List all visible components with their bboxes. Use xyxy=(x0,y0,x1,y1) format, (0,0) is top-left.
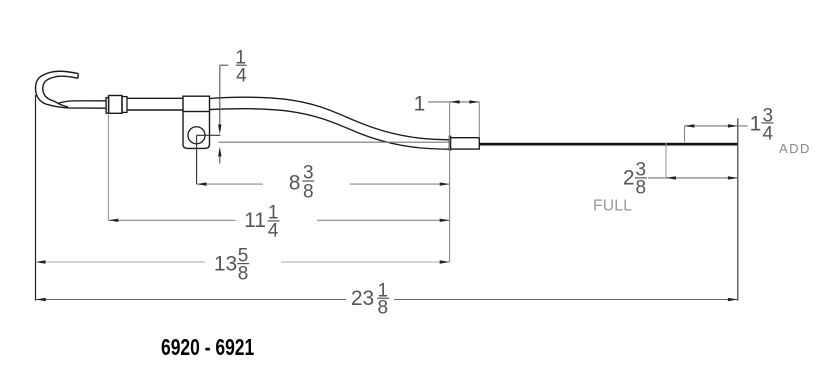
dim 2 3/8 extension line xyxy=(665,142,667,178)
dim 8 3/8 line left xyxy=(197,183,263,185)
tube end crimp bar xyxy=(449,136,452,151)
ferrule main body xyxy=(109,96,122,114)
ferrule second ring xyxy=(122,97,127,113)
tube S-curve lower line xyxy=(210,109,450,149)
svg-text:8: 8 xyxy=(636,177,647,198)
ferrule extension line xyxy=(107,114,109,221)
rod with tapered tip xyxy=(58,101,107,107)
blade thick line xyxy=(480,143,739,146)
dim 13 5/8 line left xyxy=(36,261,205,263)
hook extension line xyxy=(35,95,37,301)
tube straight section xyxy=(127,98,183,110)
dim 1/4 leader xyxy=(220,65,229,126)
dim 1 3/4 extension line left xyxy=(684,126,686,142)
dim 23 1/8 line left xyxy=(36,299,346,301)
tube end box xyxy=(451,138,479,149)
dim 23 1/8 line right with arrow xyxy=(394,299,738,301)
dim 8 3/8 text xyxy=(289,163,315,203)
svg-text:1: 1 xyxy=(414,92,426,115)
dim 13 5/8 left arrow xyxy=(36,260,46,263)
dim 13 5/8 text xyxy=(214,246,249,285)
svg-text:4: 4 xyxy=(236,66,247,87)
svg-text:8: 8 xyxy=(238,263,249,284)
dim 1 line and arrows xyxy=(450,101,480,103)
dim 1/4 up arrow with tail xyxy=(218,147,221,157)
svg-text:6920 - 6921: 6920 - 6921 xyxy=(161,336,254,361)
dim 13 5/8 line right with arrow xyxy=(281,261,450,263)
bracket tab with rounded bottom xyxy=(183,112,210,149)
svg-text:2: 2 xyxy=(623,166,635,189)
dim 1 3/4 text xyxy=(750,105,774,144)
dim 1 extension lines xyxy=(449,102,451,262)
svg-text:1: 1 xyxy=(750,112,762,135)
dim 2 3/8 line with arrows xyxy=(648,177,738,179)
tube S-curve upper line xyxy=(210,97,450,140)
dim 1/4 fraction bar xyxy=(236,64,247,66)
dim 1/4 text xyxy=(235,47,247,86)
hole centerline horizontal xyxy=(197,134,221,136)
bracket hole circle xyxy=(188,127,205,144)
dim 1 3/4 line with arrows xyxy=(685,125,748,127)
dim 8 3/8 line right with arrow xyxy=(350,183,450,185)
blade level extension line xyxy=(219,141,449,143)
svg-text:8: 8 xyxy=(289,172,301,195)
svg-text:11: 11 xyxy=(244,209,266,232)
dim 23 1/8 text xyxy=(351,280,389,318)
dim 11 1/4 line left xyxy=(108,219,235,221)
svg-text:13: 13 xyxy=(214,252,237,275)
svg-text:4: 4 xyxy=(268,220,279,241)
dim 23 1/8 left arrow xyxy=(36,298,46,301)
dim 11 1/4 text xyxy=(244,202,279,241)
dim 11 1/4 left arrow xyxy=(108,219,118,222)
bracket top block xyxy=(183,96,210,111)
dim 2 3/8 text xyxy=(623,159,647,198)
svg-text:8: 8 xyxy=(378,298,389,319)
svg-text:4: 4 xyxy=(763,123,774,144)
hook handle loop xyxy=(35,71,106,108)
dim 1 leader xyxy=(428,101,450,103)
svg-text:ADD: ADD xyxy=(779,141,811,156)
svg-text:8: 8 xyxy=(303,181,314,202)
dim 8 3/8 left arrow xyxy=(197,182,207,185)
ferrule collar small xyxy=(106,98,109,114)
dim 11 1/4 line right with arrow xyxy=(317,219,450,221)
svg-text:23: 23 xyxy=(351,287,374,310)
svg-text:FULL: FULL xyxy=(593,198,632,215)
dim 1/4 down arrow xyxy=(218,125,221,135)
blade end extension line xyxy=(737,118,739,300)
hole centerline vertical extension xyxy=(196,135,198,184)
